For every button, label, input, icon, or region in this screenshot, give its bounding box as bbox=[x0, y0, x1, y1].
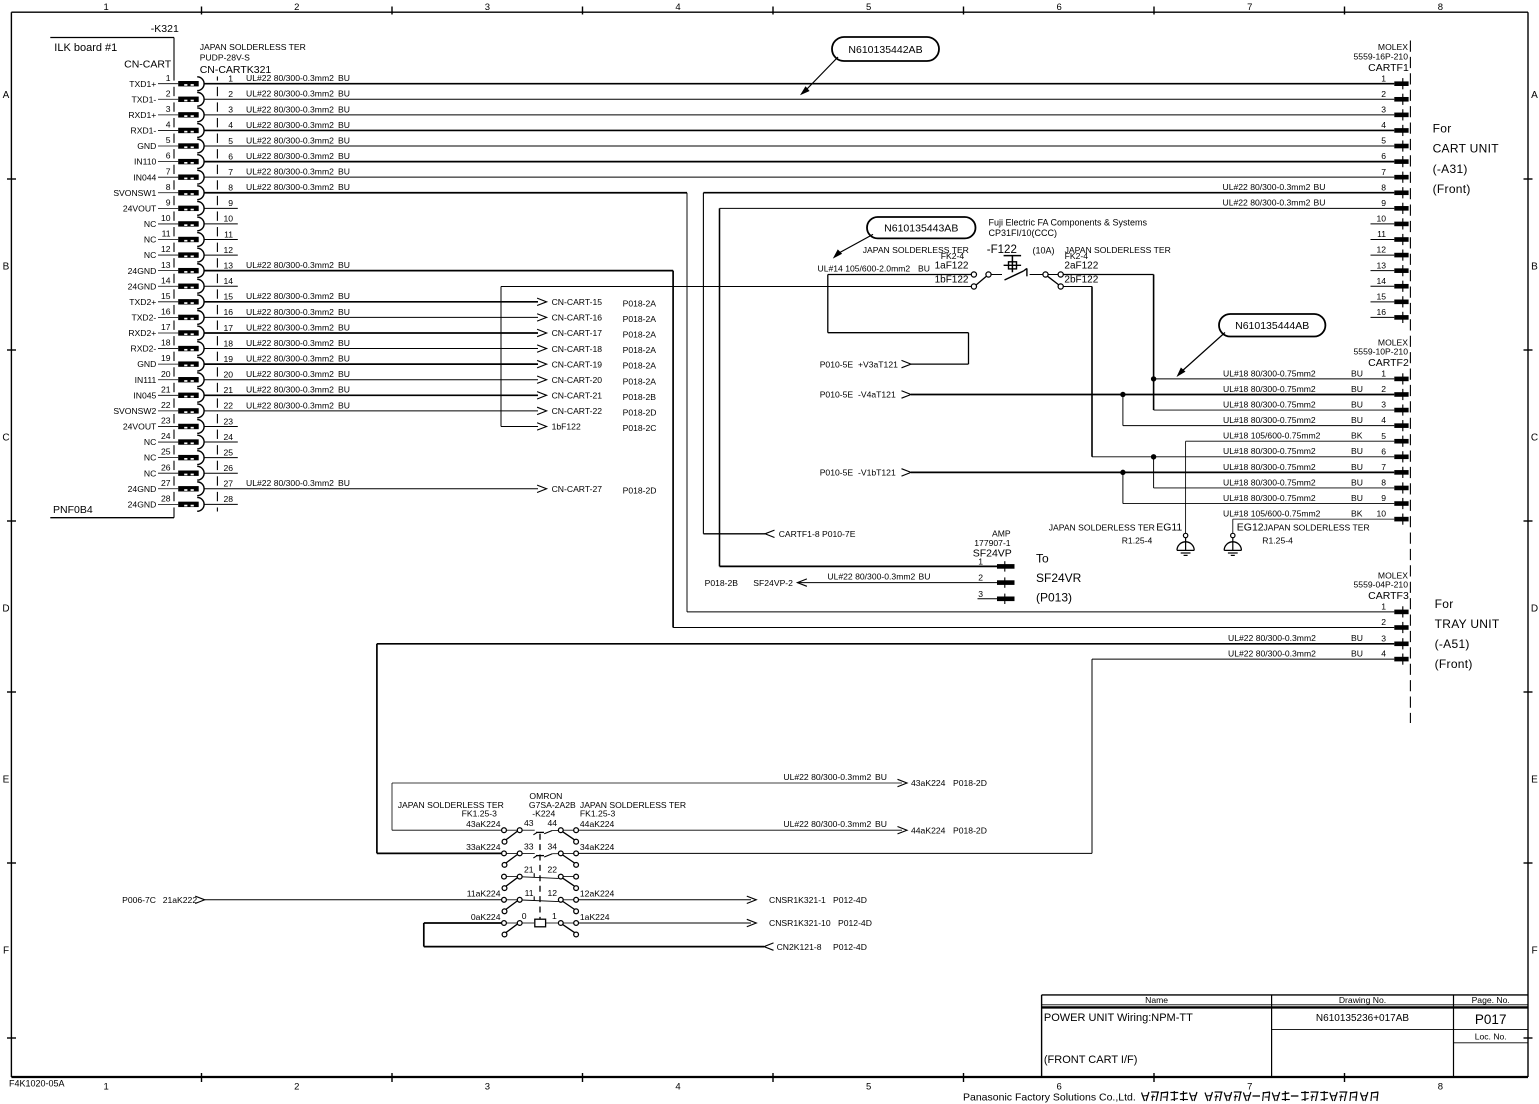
svg-text:Page. No.: Page. No. bbox=[1472, 995, 1510, 1005]
svg-text:1: 1 bbox=[166, 73, 171, 83]
svg-text:UL#18 80/300-0.75mm2: UL#18 80/300-0.75mm2 bbox=[1223, 399, 1316, 409]
svg-text:Name: Name bbox=[1145, 995, 1168, 1005]
svg-text:RXD1-: RXD1- bbox=[131, 126, 157, 136]
svg-text:8: 8 bbox=[228, 183, 233, 193]
svg-text:UL#22 80/300-0.3mm2: UL#22 80/300-0.3mm2 bbox=[1223, 182, 1311, 192]
svg-text:2: 2 bbox=[1381, 617, 1386, 627]
svg-text:BU: BU bbox=[338, 151, 350, 161]
svg-text:RXD2-: RXD2- bbox=[131, 344, 157, 354]
svg-text:EG11: EG11 bbox=[1156, 522, 1182, 534]
svg-text:BU: BU bbox=[338, 135, 350, 145]
svg-text:21aK222: 21aK222 bbox=[163, 895, 198, 905]
svg-text:5559-16P-210: 5559-16P-210 bbox=[1354, 52, 1409, 62]
svg-text:UL#22 80/300-0.3mm2: UL#22 80/300-0.3mm2 bbox=[246, 369, 334, 379]
svg-text:IN110: IN110 bbox=[134, 157, 157, 167]
svg-text:UL#18 80/300-0.75mm2: UL#18 80/300-0.75mm2 bbox=[1223, 493, 1316, 503]
svg-text:(10A): (10A) bbox=[1033, 245, 1055, 255]
svg-text:3: 3 bbox=[228, 105, 233, 115]
svg-text:4: 4 bbox=[166, 120, 171, 130]
svg-text:2: 2 bbox=[978, 573, 983, 583]
svg-text:4: 4 bbox=[1381, 120, 1386, 130]
svg-text:-K224: -K224 bbox=[532, 809, 555, 819]
svg-text:BU: BU bbox=[1351, 384, 1363, 394]
svg-text:D: D bbox=[2, 603, 9, 614]
svg-text:UL#22 80/300-0.3mm2: UL#22 80/300-0.3mm2 bbox=[783, 819, 871, 829]
svg-text:UL#22 80/300-0.3mm2: UL#22 80/300-0.3mm2 bbox=[246, 182, 334, 192]
svg-text:NC: NC bbox=[144, 468, 156, 478]
svg-text:7: 7 bbox=[228, 167, 233, 177]
svg-text:1: 1 bbox=[978, 556, 983, 566]
svg-text:(-A51): (-A51) bbox=[1435, 637, 1470, 651]
svg-text:B: B bbox=[1531, 261, 1538, 272]
svg-text:UL#22 80/300-0.3mm2: UL#22 80/300-0.3mm2 bbox=[246, 73, 334, 83]
svg-text:Loc. No.: Loc. No. bbox=[1475, 1031, 1507, 1041]
svg-text:9: 9 bbox=[228, 198, 233, 208]
svg-text:P018-2D: P018-2D bbox=[623, 407, 657, 417]
svg-text:5559-04P-210: 5559-04P-210 bbox=[1354, 580, 1409, 590]
svg-text:26: 26 bbox=[223, 463, 233, 473]
svg-text:P012-4D: P012-4D bbox=[833, 895, 867, 905]
svg-text:BU: BU bbox=[338, 322, 350, 332]
svg-text:UL#22 80/300-0.3mm2: UL#22 80/300-0.3mm2 bbox=[246, 322, 334, 332]
svg-text:24: 24 bbox=[223, 432, 233, 442]
svg-text:3: 3 bbox=[1381, 633, 1386, 643]
svg-text:11aK224: 11aK224 bbox=[467, 889, 501, 899]
svg-text:14: 14 bbox=[1376, 276, 1386, 286]
svg-text:4: 4 bbox=[675, 2, 680, 13]
svg-text:TXD1+: TXD1+ bbox=[129, 79, 156, 89]
svg-text:P018-2B: P018-2B bbox=[623, 392, 657, 402]
svg-text:17: 17 bbox=[161, 322, 171, 332]
svg-text:-V1bT121: -V1bT121 bbox=[858, 468, 896, 478]
svg-text:27: 27 bbox=[223, 479, 233, 489]
svg-text:N610135236+017AB: N610135236+017AB bbox=[1316, 1013, 1409, 1024]
svg-text:F: F bbox=[1531, 945, 1537, 956]
svg-text:CN-CART-16: CN-CART-16 bbox=[552, 313, 603, 323]
svg-text:8: 8 bbox=[1381, 478, 1386, 488]
svg-text:BU: BU bbox=[338, 182, 350, 192]
svg-text:CARTF1-8 P010-7E: CARTF1-8 P010-7E bbox=[779, 529, 856, 539]
svg-text:BU: BU bbox=[338, 291, 350, 301]
svg-text:RXD1+: RXD1+ bbox=[128, 110, 156, 120]
svg-text:3: 3 bbox=[166, 104, 171, 114]
svg-text:BU: BU bbox=[919, 572, 931, 582]
svg-text:-K321: -K321 bbox=[151, 23, 179, 35]
svg-text:21: 21 bbox=[524, 865, 534, 875]
svg-text:R1.25-4: R1.25-4 bbox=[1122, 535, 1153, 545]
svg-text:2: 2 bbox=[166, 88, 171, 98]
svg-text:25: 25 bbox=[223, 447, 233, 457]
svg-text:24VOUT: 24VOUT bbox=[123, 422, 157, 432]
svg-text:(FRONT CART I/F): (FRONT CART I/F) bbox=[1044, 1054, 1138, 1066]
svg-text:BU: BU bbox=[338, 400, 350, 410]
svg-text:21: 21 bbox=[223, 385, 233, 395]
svg-text:F: F bbox=[3, 945, 9, 956]
svg-text:ILK board #1: ILK board #1 bbox=[54, 42, 117, 54]
svg-text:3: 3 bbox=[978, 589, 983, 599]
svg-text:1aF122: 1aF122 bbox=[935, 261, 969, 272]
svg-text:CN-CART-22: CN-CART-22 bbox=[552, 406, 603, 416]
svg-text:C: C bbox=[1531, 432, 1538, 443]
svg-text:15: 15 bbox=[161, 291, 171, 301]
svg-text:19: 19 bbox=[223, 354, 233, 364]
svg-text:43: 43 bbox=[524, 818, 534, 828]
svg-text:A: A bbox=[3, 90, 10, 101]
svg-text:Fuji Electric FA Components &: Fuji Electric FA Components & Systems bbox=[989, 217, 1148, 227]
svg-text:44aK224: 44aK224 bbox=[911, 826, 946, 836]
svg-text:BU: BU bbox=[338, 167, 350, 177]
svg-text:D: D bbox=[1531, 603, 1538, 614]
svg-text:P018-2A: P018-2A bbox=[623, 345, 657, 355]
svg-text:P012-4D: P012-4D bbox=[838, 918, 872, 928]
svg-text:23: 23 bbox=[223, 416, 233, 426]
svg-text:UL#22 80/300-0.3mm2: UL#22 80/300-0.3mm2 bbox=[246, 120, 334, 130]
svg-text:6: 6 bbox=[1381, 446, 1386, 456]
svg-text:NC: NC bbox=[144, 235, 156, 245]
svg-text:BU: BU bbox=[338, 369, 350, 379]
svg-text:CN2K121-8: CN2K121-8 bbox=[777, 942, 822, 952]
svg-text:P018-2A: P018-2A bbox=[623, 314, 657, 324]
svg-text:5: 5 bbox=[866, 1082, 871, 1093]
svg-text:For: For bbox=[1435, 597, 1454, 611]
svg-text:BU: BU bbox=[1314, 182, 1326, 192]
svg-text:9: 9 bbox=[1381, 493, 1386, 503]
svg-text:24GND: 24GND bbox=[128, 499, 157, 509]
svg-text:BU: BU bbox=[1351, 415, 1363, 425]
svg-text:11: 11 bbox=[224, 229, 233, 239]
svg-text:8: 8 bbox=[166, 182, 171, 192]
svg-text:FK2-4: FK2-4 bbox=[941, 251, 965, 261]
svg-text:3: 3 bbox=[1381, 400, 1386, 410]
svg-text:EG12: EG12 bbox=[1237, 522, 1264, 534]
svg-text:5: 5 bbox=[866, 2, 871, 13]
svg-text:N610135443AB: N610135443AB bbox=[884, 223, 958, 235]
svg-text:44aK224: 44aK224 bbox=[580, 819, 615, 829]
svg-text:34: 34 bbox=[548, 841, 558, 851]
svg-text:7: 7 bbox=[1247, 2, 1252, 13]
svg-text:10: 10 bbox=[1376, 509, 1386, 519]
svg-text:12: 12 bbox=[223, 245, 233, 255]
svg-text:BU: BU bbox=[338, 354, 350, 364]
svg-text:P018-2A: P018-2A bbox=[623, 298, 657, 308]
svg-text:UL#22 80/300-0.3mm2: UL#22 80/300-0.3mm2 bbox=[246, 151, 334, 161]
svg-text:BU: BU bbox=[338, 307, 350, 317]
svg-text:13: 13 bbox=[161, 260, 171, 270]
svg-text:27: 27 bbox=[161, 478, 171, 488]
svg-text:25: 25 bbox=[161, 447, 171, 457]
svg-text:8: 8 bbox=[1381, 182, 1386, 192]
svg-text:BU: BU bbox=[338, 104, 350, 114]
svg-text:BU: BU bbox=[338, 385, 350, 395]
svg-text:UL#22 80/300-0.3mm2: UL#22 80/300-0.3mm2 bbox=[246, 478, 334, 488]
svg-text:UL#14 105/600-2.0mm2: UL#14 105/600-2.0mm2 bbox=[818, 264, 911, 274]
svg-text:10: 10 bbox=[1376, 214, 1386, 224]
svg-text:7: 7 bbox=[1247, 1082, 1252, 1093]
svg-text:24: 24 bbox=[161, 431, 171, 441]
svg-text:UL#22 80/300-0.3mm2: UL#22 80/300-0.3mm2 bbox=[827, 572, 915, 582]
svg-text:2: 2 bbox=[294, 1082, 299, 1093]
svg-text:UL#18 80/300-0.75mm2: UL#18 80/300-0.75mm2 bbox=[1223, 446, 1316, 456]
svg-text:9: 9 bbox=[166, 197, 171, 207]
svg-text:(Front): (Front) bbox=[1433, 182, 1471, 196]
svg-text:6: 6 bbox=[228, 151, 233, 161]
svg-text:43aK224: 43aK224 bbox=[466, 819, 501, 829]
svg-text:15: 15 bbox=[223, 292, 233, 302]
svg-text:16: 16 bbox=[161, 307, 171, 317]
svg-text:4: 4 bbox=[1381, 649, 1386, 659]
svg-text:P018-2A: P018-2A bbox=[623, 376, 657, 386]
svg-text:1: 1 bbox=[104, 2, 109, 13]
svg-text:CN-CART: CN-CART bbox=[124, 59, 172, 71]
svg-text:-F122: -F122 bbox=[987, 244, 1017, 256]
svg-text:UL#18 80/300-0.75mm2: UL#18 80/300-0.75mm2 bbox=[1223, 384, 1316, 394]
svg-text:JAPAN SOLDERLESS TER: JAPAN SOLDERLESS TER bbox=[1264, 522, 1370, 532]
svg-text:10: 10 bbox=[223, 214, 233, 224]
svg-text:To: To bbox=[1036, 551, 1049, 565]
svg-text:UL#22 80/300-0.3mm2: UL#22 80/300-0.3mm2 bbox=[246, 167, 334, 177]
svg-text:CN-CART-17: CN-CART-17 bbox=[552, 328, 603, 338]
svg-text:SVONSW1: SVONSW1 bbox=[113, 188, 156, 198]
svg-text:UL#18 80/300-0.75mm2: UL#18 80/300-0.75mm2 bbox=[1223, 415, 1316, 425]
svg-text:SF24VP-2: SF24VP-2 bbox=[753, 578, 793, 588]
svg-text:16: 16 bbox=[223, 307, 233, 317]
svg-text:CN-CART-20: CN-CART-20 bbox=[552, 375, 603, 385]
svg-text:1: 1 bbox=[1381, 73, 1386, 83]
svg-text:UL#22 80/300-0.3mm2: UL#22 80/300-0.3mm2 bbox=[246, 338, 334, 348]
svg-text:CART UNIT: CART UNIT bbox=[1433, 142, 1500, 156]
svg-text:7: 7 bbox=[166, 166, 171, 176]
svg-text:23: 23 bbox=[161, 416, 171, 426]
svg-text:2: 2 bbox=[228, 89, 233, 99]
svg-text:TXD1-: TXD1- bbox=[131, 94, 156, 104]
svg-text:5: 5 bbox=[166, 135, 171, 145]
svg-text:18: 18 bbox=[223, 338, 233, 348]
svg-text:Panasonic Factory Solutions Co: Panasonic Factory Solutions Co.,Ltd. bbox=[963, 1092, 1136, 1104]
svg-text:3: 3 bbox=[1381, 104, 1386, 114]
svg-text:A: A bbox=[1531, 90, 1538, 101]
svg-text:7: 7 bbox=[1381, 167, 1386, 177]
svg-text:E: E bbox=[1531, 774, 1538, 785]
svg-text:Drawing No.: Drawing No. bbox=[1339, 995, 1386, 1005]
svg-text:26: 26 bbox=[161, 462, 171, 472]
svg-text:BU: BU bbox=[1314, 198, 1326, 208]
svg-text:GND: GND bbox=[137, 359, 156, 369]
svg-text:JAPAN SOLDERLESS TER: JAPAN SOLDERLESS TER bbox=[1049, 522, 1155, 532]
svg-text:8: 8 bbox=[1438, 2, 1443, 13]
svg-text:28: 28 bbox=[223, 494, 233, 504]
svg-text:P006-7C: P006-7C bbox=[122, 895, 156, 905]
svg-text:CARTF2: CARTF2 bbox=[1368, 357, 1409, 369]
svg-text:CARTF3: CARTF3 bbox=[1368, 590, 1409, 602]
svg-text:UL#22 80/300-0.3mm2: UL#22 80/300-0.3mm2 bbox=[246, 260, 334, 270]
svg-text:CN-CART-15: CN-CART-15 bbox=[552, 297, 603, 307]
svg-text:14: 14 bbox=[161, 275, 171, 285]
svg-text:1: 1 bbox=[104, 1082, 109, 1093]
svg-text:TRAY UNIT: TRAY UNIT bbox=[1435, 617, 1500, 631]
svg-text:UL#22 80/300-0.3mm2: UL#22 80/300-0.3mm2 bbox=[783, 772, 871, 782]
svg-text:E: E bbox=[3, 774, 10, 785]
svg-text:RXD2+: RXD2+ bbox=[128, 328, 156, 338]
svg-text:CP31FI/10(CCC): CP31FI/10(CCC) bbox=[989, 228, 1058, 238]
svg-text:POWER UNIT Wiring:NPM-TT: POWER UNIT Wiring:NPM-TT bbox=[1044, 1012, 1193, 1024]
svg-text:2: 2 bbox=[1381, 384, 1386, 394]
svg-text:12: 12 bbox=[161, 244, 171, 254]
svg-text:24GND: 24GND bbox=[128, 484, 157, 494]
svg-text:BU: BU bbox=[338, 73, 350, 83]
svg-text:5: 5 bbox=[1381, 136, 1386, 146]
svg-text:CARTF1: CARTF1 bbox=[1368, 62, 1409, 74]
svg-text:FK2-4: FK2-4 bbox=[1065, 251, 1089, 261]
svg-text:1bF122: 1bF122 bbox=[935, 275, 969, 286]
svg-text:TXD2-: TXD2- bbox=[131, 313, 156, 323]
svg-text:UL#22 80/300-0.3mm2: UL#22 80/300-0.3mm2 bbox=[246, 104, 334, 114]
svg-text:BU: BU bbox=[1351, 462, 1363, 472]
svg-text:TXD2+: TXD2+ bbox=[129, 297, 156, 307]
svg-text:18: 18 bbox=[161, 338, 171, 348]
svg-text:22: 22 bbox=[548, 865, 558, 875]
svg-text:UL#18 80/300-0.75mm2: UL#18 80/300-0.75mm2 bbox=[1223, 368, 1316, 378]
svg-text:20: 20 bbox=[161, 369, 171, 379]
svg-text:AMP: AMP bbox=[992, 528, 1011, 538]
svg-text:UL#22 80/300-0.3mm2: UL#22 80/300-0.3mm2 bbox=[246, 135, 334, 145]
svg-text:17: 17 bbox=[223, 323, 233, 333]
svg-text:44: 44 bbox=[548, 818, 558, 828]
svg-text:IN045: IN045 bbox=[133, 390, 156, 400]
svg-text:PNF0B4: PNF0B4 bbox=[53, 504, 93, 516]
svg-text:(-A31): (-A31) bbox=[1433, 162, 1468, 176]
svg-text:JAPAN SOLDERLESS TER: JAPAN SOLDERLESS TER bbox=[200, 42, 306, 52]
svg-text:F4K1020-05A: F4K1020-05A bbox=[9, 1079, 65, 1089]
svg-text:12: 12 bbox=[548, 888, 558, 898]
svg-text:P018-2D: P018-2D bbox=[623, 485, 657, 495]
svg-text:9: 9 bbox=[1381, 198, 1386, 208]
svg-text:SF24VR: SF24VR bbox=[1036, 571, 1082, 585]
svg-text:BK: BK bbox=[1351, 431, 1363, 441]
svg-text:13: 13 bbox=[223, 260, 233, 270]
svg-text:2: 2 bbox=[1381, 89, 1386, 99]
svg-text:SVONSW2: SVONSW2 bbox=[113, 406, 156, 416]
svg-text:24VOUT: 24VOUT bbox=[123, 203, 157, 213]
svg-text:5: 5 bbox=[228, 136, 233, 146]
svg-text:6: 6 bbox=[166, 151, 171, 161]
svg-text:CN-CART-19: CN-CART-19 bbox=[552, 359, 603, 369]
svg-text:CN-CART-21: CN-CART-21 bbox=[552, 391, 603, 401]
svg-text:2aF122: 2aF122 bbox=[1064, 261, 1098, 272]
svg-text:5559-10P-210: 5559-10P-210 bbox=[1354, 347, 1409, 357]
svg-text:3: 3 bbox=[485, 1082, 490, 1093]
svg-text:FK1.25-3: FK1.25-3 bbox=[462, 808, 498, 818]
svg-text:P017: P017 bbox=[1475, 1012, 1507, 1027]
svg-text:UL#22 80/300-0.3mm2: UL#22 80/300-0.3mm2 bbox=[1228, 649, 1316, 659]
svg-text:N610135442AB: N610135442AB bbox=[848, 44, 922, 56]
svg-text:20: 20 bbox=[223, 370, 233, 380]
svg-text:24GND: 24GND bbox=[128, 266, 157, 276]
svg-text:24GND: 24GND bbox=[128, 281, 157, 291]
svg-text:P010-5E: P010-5E bbox=[820, 468, 854, 478]
svg-text:6: 6 bbox=[1381, 151, 1386, 161]
svg-text:CN-CART-18: CN-CART-18 bbox=[552, 344, 603, 354]
svg-text:C: C bbox=[2, 432, 9, 443]
svg-text:UL#18 105/600-0.75mm2: UL#18 105/600-0.75mm2 bbox=[1223, 509, 1321, 519]
svg-text:BU: BU bbox=[338, 478, 350, 488]
svg-text:BU: BU bbox=[875, 819, 887, 829]
svg-text:21: 21 bbox=[161, 384, 171, 394]
svg-text:CNSR1K321-10: CNSR1K321-10 bbox=[769, 918, 831, 928]
svg-text:P018-2A: P018-2A bbox=[623, 330, 657, 340]
svg-text:BU: BU bbox=[918, 264, 930, 274]
svg-text:NC: NC bbox=[144, 437, 156, 447]
svg-text:(Front): (Front) bbox=[1435, 657, 1473, 671]
svg-text:BU: BU bbox=[1351, 399, 1363, 409]
svg-text:BU: BU bbox=[338, 89, 350, 99]
svg-text:2bF122: 2bF122 bbox=[1064, 275, 1098, 286]
svg-text:0: 0 bbox=[522, 911, 527, 921]
svg-text:For: For bbox=[1433, 121, 1452, 135]
svg-text:3: 3 bbox=[485, 2, 490, 13]
svg-text:UL#22 80/300-0.3mm2: UL#22 80/300-0.3mm2 bbox=[246, 400, 334, 410]
svg-text:+V3aT121: +V3aT121 bbox=[858, 359, 898, 369]
svg-text:1: 1 bbox=[1381, 602, 1386, 612]
svg-text:R1.25-4: R1.25-4 bbox=[1262, 535, 1293, 545]
svg-text:UL#22 80/300-0.3mm2: UL#22 80/300-0.3mm2 bbox=[246, 291, 334, 301]
svg-text:GND: GND bbox=[137, 141, 156, 151]
svg-text:22: 22 bbox=[161, 400, 171, 410]
svg-text:UL#18 80/300-0.75mm2: UL#18 80/300-0.75mm2 bbox=[1223, 462, 1316, 472]
svg-text:0aK224: 0aK224 bbox=[471, 912, 501, 922]
svg-text:FK1.25-3: FK1.25-3 bbox=[580, 808, 616, 818]
svg-text:BU: BU bbox=[338, 120, 350, 130]
svg-text:BU: BU bbox=[875, 772, 887, 782]
svg-text:43aK224: 43aK224 bbox=[911, 778, 946, 788]
svg-text:UL#18 105/600-0.75mm2: UL#18 105/600-0.75mm2 bbox=[1223, 431, 1321, 441]
svg-text:P010-5E: P010-5E bbox=[820, 359, 854, 369]
svg-text:B: B bbox=[3, 261, 10, 272]
svg-text:UL#18 80/300-0.75mm2: UL#18 80/300-0.75mm2 bbox=[1223, 477, 1316, 487]
svg-text:5: 5 bbox=[1381, 431, 1386, 441]
svg-text:UL#22 80/300-0.3mm2: UL#22 80/300-0.3mm2 bbox=[1228, 633, 1316, 643]
svg-text:NC: NC bbox=[144, 250, 156, 260]
svg-text:P012-4D: P012-4D bbox=[833, 942, 867, 952]
svg-text:IN111: IN111 bbox=[135, 375, 157, 385]
svg-text:12: 12 bbox=[1376, 245, 1386, 255]
svg-text:1: 1 bbox=[552, 911, 557, 921]
svg-text:P018-2A: P018-2A bbox=[623, 361, 657, 371]
svg-text:PUDP-28V-S: PUDP-28V-S bbox=[200, 53, 250, 63]
svg-text:11: 11 bbox=[525, 888, 534, 898]
svg-text:1bF122: 1bF122 bbox=[552, 422, 581, 432]
svg-text:12aK224: 12aK224 bbox=[580, 889, 615, 899]
svg-text:NC: NC bbox=[144, 219, 156, 229]
svg-text:15: 15 bbox=[1376, 291, 1386, 301]
svg-text:UL#22 80/300-0.3mm2: UL#22 80/300-0.3mm2 bbox=[246, 307, 334, 317]
svg-text:(P013): (P013) bbox=[1036, 590, 1072, 604]
svg-text:BU: BU bbox=[1351, 649, 1363, 659]
svg-text:UL#22 80/300-0.3mm2: UL#22 80/300-0.3mm2 bbox=[246, 385, 334, 395]
svg-text:N610135444AB: N610135444AB bbox=[1235, 320, 1309, 332]
svg-text:19: 19 bbox=[161, 353, 171, 363]
svg-text:CNSR1K321-1: CNSR1K321-1 bbox=[769, 895, 826, 905]
svg-text:BU: BU bbox=[1351, 368, 1363, 378]
svg-text:8: 8 bbox=[1438, 1082, 1443, 1093]
svg-text:33aK224: 33aK224 bbox=[466, 842, 501, 852]
svg-text:P018-2D: P018-2D bbox=[953, 826, 987, 836]
svg-text:10: 10 bbox=[161, 213, 171, 223]
svg-text:P018-2C: P018-2C bbox=[623, 423, 657, 433]
svg-text:16: 16 bbox=[1376, 307, 1386, 317]
svg-text:14: 14 bbox=[223, 276, 233, 286]
svg-text:13: 13 bbox=[1376, 260, 1386, 270]
svg-text:1: 1 bbox=[1381, 369, 1386, 379]
